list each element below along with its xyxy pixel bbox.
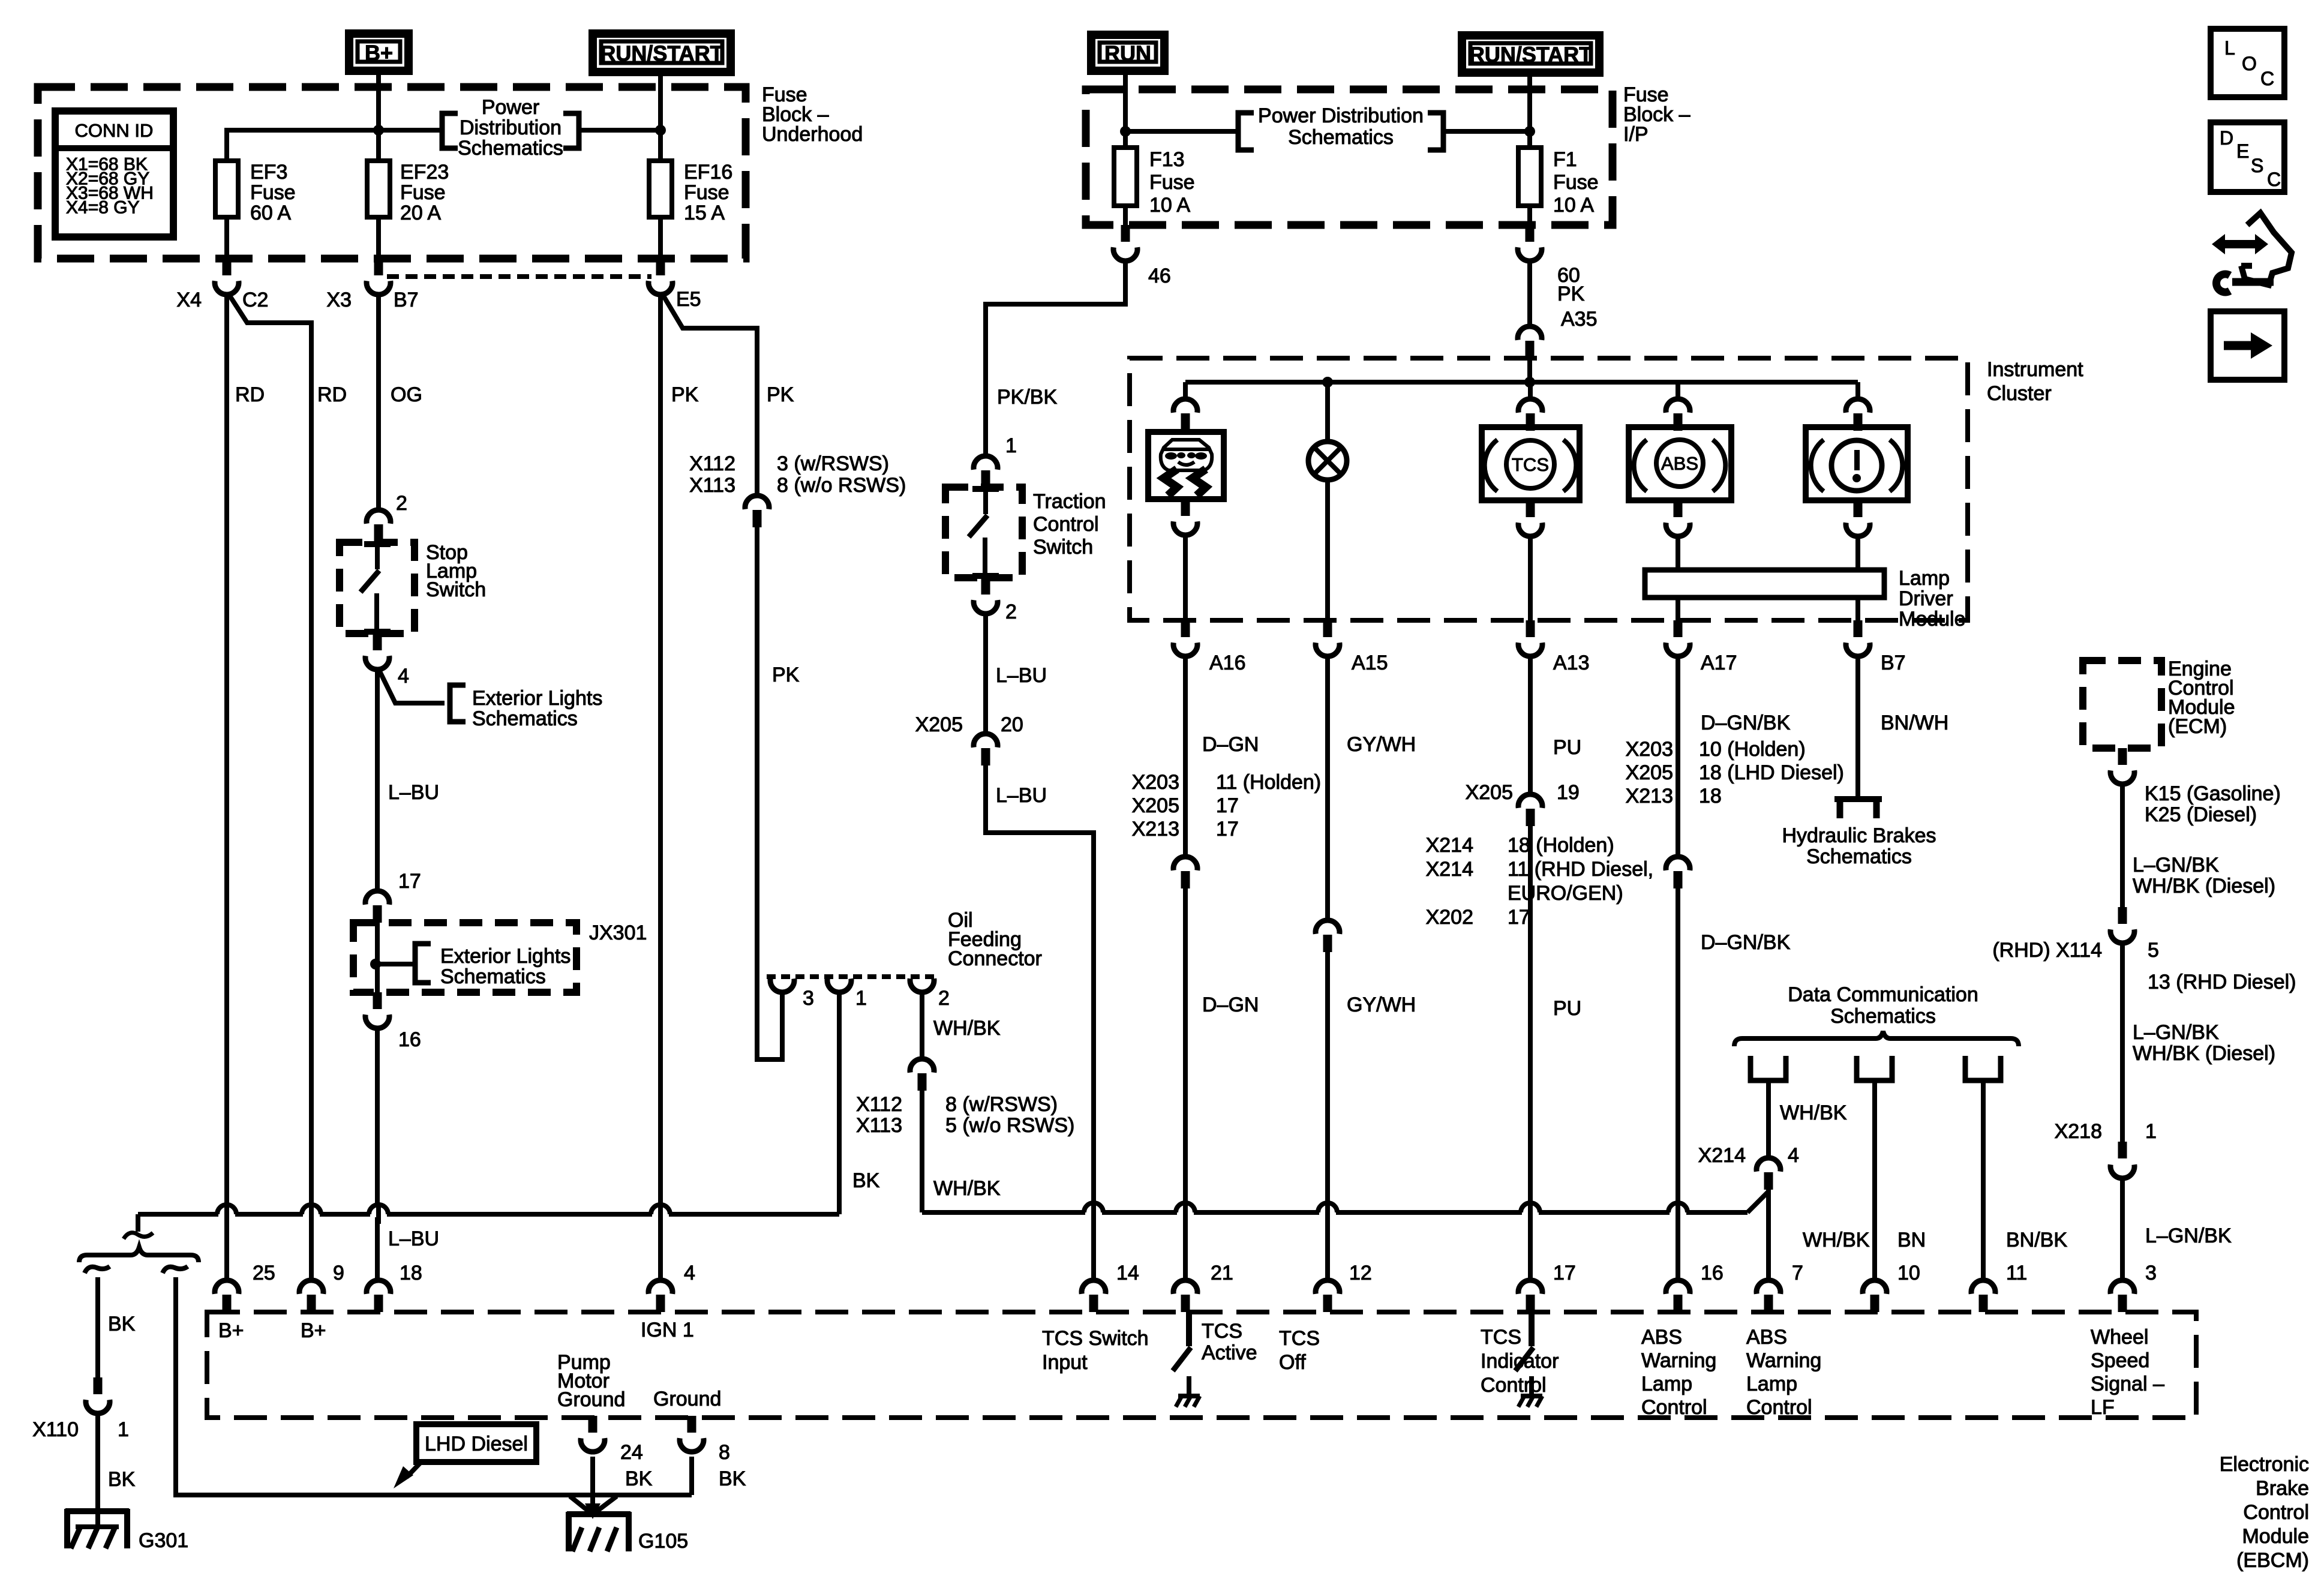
connector X218 pin 1 xyxy=(2118,1142,2127,1158)
wire BN to EBCM pin 10 xyxy=(1872,1080,1877,1279)
svg-text:Schematics: Schematics xyxy=(458,137,563,160)
wire BN/WH xyxy=(1855,655,1860,798)
svg-text:Switch: Switch xyxy=(426,578,486,601)
svg-text:X214: X214 xyxy=(1698,1144,1746,1167)
connector 4 below stop lamp switch xyxy=(373,634,382,650)
svg-text:60 A: 60 A xyxy=(250,202,291,224)
svg-text:RD: RD xyxy=(317,383,347,406)
svg-text:PK: PK xyxy=(1557,283,1585,305)
svg-text:WH/BK: WH/BK xyxy=(933,1017,1001,1040)
svg-text:Wheel: Wheel xyxy=(2091,1326,2148,1349)
svg-text:(RHD) X114: (RHD) X114 xyxy=(1992,939,2102,962)
wire B7 below lamp driver xyxy=(1855,598,1860,620)
svg-text:WH/BK (Diesel): WH/BK (Diesel) xyxy=(2133,875,2275,897)
svg-text:LHD Diesel: LHD Diesel xyxy=(425,1433,528,1455)
svg-text:Warning: Warning xyxy=(1641,1349,1716,1372)
fuse block I/P dashed box xyxy=(1086,89,1613,225)
svg-text:GY/WH: GY/WH xyxy=(1347,733,1416,756)
svg-text:Control: Control xyxy=(1746,1396,1812,1419)
connector 60 below F1 xyxy=(1526,225,1535,242)
svg-text:Control: Control xyxy=(1033,513,1099,536)
svg-text:BK: BK xyxy=(108,1468,136,1491)
ground G105 xyxy=(567,1511,630,1517)
junction on RUN wire xyxy=(1120,126,1131,137)
wire PU to TCS indicator control xyxy=(1528,826,1533,1279)
svg-text:X3: X3 xyxy=(326,289,352,311)
wire D-GN xyxy=(1183,655,1188,855)
svg-text:C: C xyxy=(2260,68,2274,89)
svg-text:X110: X110 xyxy=(32,1418,79,1441)
connector A13 xyxy=(1526,620,1535,637)
svg-text:TCS: TCS xyxy=(1481,1326,1521,1349)
connector 2 below traction control switch xyxy=(981,578,990,595)
wire L-GN/BK to EBCM pin 3 xyxy=(2120,1177,2125,1279)
bracket power distribution I/P (left) xyxy=(1238,113,1254,150)
branch to exterior lights schematics xyxy=(378,668,445,703)
bracket exterior lights schematics (JX301) xyxy=(415,944,431,983)
wire BK to G301 xyxy=(95,1412,100,1527)
svg-text:X205: X205 xyxy=(915,713,963,736)
TCS indicator box xyxy=(1482,427,1580,500)
svg-text:PK: PK xyxy=(772,664,800,686)
svg-text:D–GN/BK: D–GN/BK xyxy=(1701,931,1791,954)
connector pin 18 EBCM xyxy=(367,1280,391,1294)
svg-text:PU: PU xyxy=(1553,736,1581,759)
svg-text:RUN: RUN xyxy=(1104,41,1151,66)
wire to G105 collector xyxy=(176,1277,692,1495)
data comm stub WH/BK xyxy=(1750,1056,1786,1080)
wire lamp to A15 xyxy=(1325,480,1330,620)
wire B+ feed xyxy=(376,75,381,161)
svg-text:L–GN/BK: L–GN/BK xyxy=(2133,854,2219,876)
wire L-GN/BK to X218 xyxy=(2120,941,2125,1143)
svg-text:Schematics: Schematics xyxy=(1806,845,1912,868)
wire to TCS Off lamp xyxy=(1325,382,1330,442)
ground G301 xyxy=(65,1508,129,1514)
wire WH/BK to X214 xyxy=(1766,1080,1771,1157)
bus drop to brace xyxy=(136,1214,140,1232)
right BK wire hook xyxy=(163,1266,188,1273)
connector pin 16 EBCM xyxy=(1666,1280,1690,1294)
connector B7 (cluster) xyxy=(1854,620,1863,637)
svg-text:24: 24 xyxy=(620,1441,643,1464)
svg-text:Brake: Brake xyxy=(2256,1477,2309,1500)
junction node on RUN/START wire xyxy=(655,125,666,136)
wire RD from X4 (pin 25 B+) xyxy=(224,293,229,1279)
wire to A16 xyxy=(1183,533,1188,620)
svg-text:2: 2 xyxy=(1005,601,1017,623)
stop lamp switch xyxy=(364,541,391,547)
brake warning icon xyxy=(1831,440,1882,491)
brake warning indicator box xyxy=(1806,427,1908,500)
connector below TCS icon xyxy=(1526,500,1535,517)
svg-text:PK: PK xyxy=(767,383,794,406)
svg-text:BN/BK: BN/BK xyxy=(2006,1229,2067,1251)
svg-text:ABS: ABS xyxy=(1641,1326,1682,1349)
svg-text:10 A: 10 A xyxy=(1553,194,1594,217)
svg-text:Lamp: Lamp xyxy=(1746,1373,1797,1395)
svg-text:L: L xyxy=(2224,37,2235,59)
svg-text:46: 46 xyxy=(1148,265,1171,287)
svg-text:Warning: Warning xyxy=(1746,1349,1821,1372)
connector above brake warning icon xyxy=(1846,399,1870,413)
svg-text:1: 1 xyxy=(118,1418,129,1441)
svg-text:Switch: Switch xyxy=(1033,536,1093,559)
wire to ABS icon xyxy=(1676,382,1680,398)
connector 8 ground xyxy=(687,1416,696,1433)
svg-text:Fuse: Fuse xyxy=(1149,171,1195,194)
vehicle skid icon skid marks xyxy=(1164,469,1177,496)
svg-text:Electronic: Electronic xyxy=(2220,1453,2309,1476)
svg-text:WH/BK (Diesel): WH/BK (Diesel) xyxy=(2133,1042,2275,1065)
svg-text:X112: X112 xyxy=(856,1093,902,1116)
svg-text:A17: A17 xyxy=(1701,652,1737,674)
arrow icon xyxy=(2211,311,2284,380)
svg-text:I/P: I/P xyxy=(1623,123,1649,146)
svg-text:3: 3 xyxy=(2145,1262,2157,1284)
svg-text:D–GN: D–GN xyxy=(1202,993,1259,1016)
wire to skid icon xyxy=(1183,382,1188,398)
oil feeding connector dashed row xyxy=(767,974,936,979)
svg-text:Ground: Ground xyxy=(653,1388,721,1410)
svg-text:BK: BK xyxy=(108,1313,136,1335)
svg-text:A13: A13 xyxy=(1553,652,1590,674)
svg-text:16: 16 xyxy=(398,1028,421,1051)
bus hops xyxy=(218,1211,235,1217)
oil feeding cup pin 1 xyxy=(827,978,851,992)
data communication brace xyxy=(1734,1031,2019,1046)
connector A17 xyxy=(1674,620,1683,637)
fuse EF16 15A xyxy=(658,161,663,259)
connector pin 11 EBCM xyxy=(1971,1280,1995,1294)
svg-text:K15 (Gasoline): K15 (Gasoline) xyxy=(2145,782,2281,805)
connector pin 4 EBCM xyxy=(648,1280,672,1294)
connector X3 pin B7 xyxy=(374,259,383,275)
svg-text:RUN/START: RUN/START xyxy=(1469,43,1592,67)
wire X214 to EBCM pin 7 xyxy=(1766,1190,1771,1279)
svg-text:B+: B+ xyxy=(365,41,393,65)
svg-text:F1: F1 xyxy=(1553,148,1577,171)
power tag RUN xyxy=(1091,35,1164,71)
svg-text:8: 8 xyxy=(719,1441,730,1464)
bracket power distribution I/P (right) xyxy=(1428,113,1443,150)
svg-text:4: 4 xyxy=(1788,1144,1799,1167)
svg-text:TCS: TCS xyxy=(1202,1320,1242,1343)
connector X114 xyxy=(2118,907,2127,924)
fuse EF23 20A xyxy=(376,161,381,259)
svg-text:1: 1 xyxy=(2145,1120,2157,1143)
svg-text:3 (w/RSWS): 3 (w/RSWS) xyxy=(777,452,889,475)
svg-text:Speed: Speed xyxy=(2091,1349,2149,1372)
svg-text:19: 19 xyxy=(1557,781,1580,804)
svg-text:X214: X214 xyxy=(1426,858,1473,881)
svg-text:L–GN/BK: L–GN/BK xyxy=(2133,1021,2219,1044)
svg-text:X213: X213 xyxy=(1626,785,1673,807)
svg-text:25: 25 xyxy=(253,1262,275,1284)
svg-text:Data Communication: Data Communication xyxy=(1788,983,1978,1006)
svg-text:D–GN/BK: D–GN/BK xyxy=(1701,712,1791,734)
svg-text:ABS: ABS xyxy=(1746,1326,1787,1349)
wire GY/WH to TCS Off xyxy=(1325,952,1330,1279)
svg-text:Cluster: Cluster xyxy=(1987,382,2052,405)
ground bus (left) xyxy=(138,1212,839,1217)
svg-text:20 A: 20 A xyxy=(400,202,441,224)
svg-text:C: C xyxy=(2267,169,2281,190)
svg-text:Distribution: Distribution xyxy=(460,116,562,139)
svg-text:14: 14 xyxy=(1116,1262,1139,1284)
svg-text:B+: B+ xyxy=(218,1319,244,1342)
traction control switch xyxy=(972,486,999,492)
svg-text:RD: RD xyxy=(235,383,265,406)
svg-text:EURO/GEN): EURO/GEN) xyxy=(1508,882,1623,905)
connector X110 pin 1 xyxy=(94,1377,103,1394)
diagonal from ground bus to X214 xyxy=(1747,1191,1768,1212)
svg-text:Off: Off xyxy=(1279,1351,1306,1374)
svg-text:X112: X112 xyxy=(689,452,735,475)
connector X4 pin C2 xyxy=(223,259,232,275)
svg-text:E: E xyxy=(2236,140,2249,162)
power tag RUN/START (I/P) xyxy=(1462,35,1599,73)
LHD Diesel arrow xyxy=(407,1462,421,1477)
connector below ABS icon xyxy=(1674,500,1683,517)
svg-text:17: 17 xyxy=(398,870,421,893)
fuse F1 10A xyxy=(1527,148,1532,225)
svg-text:BN: BN xyxy=(1897,1229,1926,1251)
break squiggle xyxy=(124,1233,153,1239)
oil feeding cup pin 3 xyxy=(770,978,794,992)
svg-text:BN/WH: BN/WH xyxy=(1881,712,1948,734)
wire from connector 8 to collector xyxy=(689,1457,694,1495)
svg-text:K25 (Diesel): K25 (Diesel) xyxy=(2145,803,2257,826)
svg-text:17: 17 xyxy=(1508,906,1530,929)
G105 fork xyxy=(570,1496,591,1513)
svg-text:Underhood: Underhood xyxy=(762,123,863,146)
svg-text:Hydraulic Brakes: Hydraulic Brakes xyxy=(1782,824,1936,847)
wire WH/BK pin2 xyxy=(920,990,924,1058)
EBCM dashed box xyxy=(207,1312,2196,1418)
svg-text:8 (w/o RSWS): 8 (w/o RSWS) xyxy=(777,474,906,497)
connector pin 14 EBCM xyxy=(1082,1280,1106,1294)
svg-text:BK: BK xyxy=(719,1467,746,1490)
svg-text:D–GN: D–GN xyxy=(1202,733,1259,756)
wire PU xyxy=(1528,655,1533,793)
connector 2 stop lamp switch xyxy=(367,510,391,524)
svg-text:13 (RHD Diesel): 13 (RHD Diesel) xyxy=(2148,971,2296,993)
svg-text:20: 20 xyxy=(1001,713,1023,736)
svg-text:Connector: Connector xyxy=(948,947,1042,970)
connector pin 17 EBCM xyxy=(1518,1280,1542,1294)
svg-text:Exterior Lights: Exterior Lights xyxy=(440,945,571,968)
ground bus (right) xyxy=(922,1210,1747,1215)
svg-text:15 A: 15 A xyxy=(684,202,725,224)
svg-text:WH/BK: WH/BK xyxy=(1803,1229,1870,1251)
branch from E5 to X112/X113 xyxy=(662,294,757,494)
wire RUN/START I/P feed xyxy=(1527,77,1532,148)
lamp driver module box xyxy=(1645,570,1884,598)
brace to BK wires xyxy=(79,1247,199,1262)
svg-text:L–BU: L–BU xyxy=(996,784,1047,807)
connector 46 below F13 xyxy=(1121,225,1130,242)
svg-text:4: 4 xyxy=(684,1262,695,1284)
connector 16 below JX301 xyxy=(373,992,382,1009)
wire L-GN/BK from ECM xyxy=(2120,782,2125,907)
connector pin 25 EBCM xyxy=(215,1280,239,1294)
svg-text:A16: A16 xyxy=(1209,652,1246,674)
wire GY/WH xyxy=(1325,655,1330,919)
connector 24 pump motor ground xyxy=(588,1416,597,1433)
svg-text:2: 2 xyxy=(938,987,950,1010)
wire L-BU to TCS switch input xyxy=(986,766,1094,1279)
wire bracket to RUN/START xyxy=(579,128,660,133)
svg-text:WH/BK: WH/BK xyxy=(933,1177,1001,1200)
wire RUN feed xyxy=(1123,75,1128,148)
svg-text:X218: X218 xyxy=(2055,1120,2102,1143)
svg-text:PK/BK: PK/BK xyxy=(997,386,1057,409)
svg-text:JX301: JX301 xyxy=(589,921,647,944)
svg-text:X205: X205 xyxy=(1132,794,1179,817)
svg-text:Module: Module xyxy=(1899,608,1966,631)
fuse block underhood dashed box xyxy=(38,87,746,259)
svg-text:Exterior Lights: Exterior Lights xyxy=(472,687,602,710)
svg-text:E5: E5 xyxy=(676,288,701,311)
connector pin 3 EBCM xyxy=(2110,1280,2134,1294)
svg-text:X113: X113 xyxy=(689,474,735,497)
svg-text:21: 21 xyxy=(1211,1262,1233,1284)
wire RD branch from C2 (pin 9 B+) xyxy=(229,294,311,1279)
LOC icon xyxy=(2211,29,2284,97)
svg-text:18: 18 xyxy=(1699,785,1722,807)
connector above TCS icon xyxy=(1518,399,1542,413)
wire L-BU xyxy=(983,612,988,733)
svg-text:G105: G105 xyxy=(638,1530,688,1553)
connector above ABS icon xyxy=(1666,399,1690,413)
wire PK to instrument cluster xyxy=(1527,259,1532,325)
svg-text:L–BU: L–BU xyxy=(996,664,1047,687)
left BK wire hook xyxy=(85,1266,110,1273)
data comm stub BN xyxy=(1857,1056,1892,1080)
svg-text:S: S xyxy=(2251,155,2263,176)
svg-text:5: 5 xyxy=(2148,939,2159,962)
svg-text:EF16: EF16 xyxy=(684,161,732,184)
wire A17 below lamp driver xyxy=(1676,598,1680,620)
connector above skid icon xyxy=(1173,399,1197,413)
svg-text:Module: Module xyxy=(2242,1525,2309,1548)
svg-text:Fuse: Fuse xyxy=(400,181,446,204)
connector E5 xyxy=(656,259,665,275)
lamp symbol xyxy=(1308,442,1347,480)
svg-text:TCS Switch: TCS Switch xyxy=(1042,1327,1149,1350)
bracket to Power Distribution Schematics (left) xyxy=(442,113,458,148)
wire L-BU JX301 to EBCM pin 18 xyxy=(375,1026,380,1279)
wire to A13 xyxy=(1528,535,1533,620)
svg-text:X113: X113 xyxy=(856,1114,902,1137)
hydraulic brakes destination bracket xyxy=(1834,796,1882,802)
wire D-GN/BK xyxy=(1676,655,1680,855)
data comm stub BN/BK xyxy=(1965,1056,2001,1080)
fuse EF3 60A xyxy=(224,161,229,259)
svg-text:Power Distribution: Power Distribution xyxy=(1258,104,1424,127)
svg-text:BK: BK xyxy=(852,1169,880,1192)
svg-text:WH/BK: WH/BK xyxy=(1780,1101,1847,1124)
svg-text:10 A: 10 A xyxy=(1149,194,1190,217)
connector below skid icon xyxy=(1181,499,1190,516)
svg-text:EF23: EF23 xyxy=(400,161,449,184)
svg-text:X213: X213 xyxy=(1132,818,1179,840)
svg-text:4: 4 xyxy=(398,665,409,688)
svg-text:TCS: TCS xyxy=(1279,1327,1320,1350)
svg-text:ABS: ABS xyxy=(1661,453,1698,474)
svg-text:RUN/START: RUN/START xyxy=(600,41,723,66)
svg-text:Control: Control xyxy=(1641,1396,1707,1419)
svg-text:Schematics: Schematics xyxy=(1830,1005,1936,1028)
svg-text:17: 17 xyxy=(1553,1262,1576,1284)
wire to brake warning icon xyxy=(1855,382,1860,398)
connector pin 21 EBCM xyxy=(1173,1280,1197,1294)
oil feeding cup pin 2 xyxy=(910,978,934,992)
svg-text:IGN 1: IGN 1 xyxy=(641,1319,694,1341)
svg-text:Lamp: Lamp xyxy=(1899,567,1950,590)
svg-text:L–BU: L–BU xyxy=(388,1227,439,1250)
ABS indicator box xyxy=(1629,427,1731,500)
wire OG / stop lamp feed xyxy=(376,293,381,509)
TCS indicator icon xyxy=(1506,440,1554,488)
DESC icon xyxy=(2211,122,2284,192)
svg-text:1: 1 xyxy=(1005,434,1017,457)
wire BK to X110 xyxy=(95,1277,100,1377)
LHD Diesel box xyxy=(416,1424,536,1462)
stop lamp switch dashed box xyxy=(340,542,415,634)
svg-text:11: 11 xyxy=(2006,1262,2027,1284)
svg-text:Driver: Driver xyxy=(1899,587,1953,610)
svg-text:5 (w/o RSWS): 5 (w/o RSWS) xyxy=(945,1114,1074,1137)
svg-text:10 (Holden): 10 (Holden) xyxy=(1699,738,1806,761)
svg-text:GY/WH: GY/WH xyxy=(1347,993,1416,1016)
engine control module dashed box xyxy=(2083,661,2161,748)
svg-text:Schematics: Schematics xyxy=(440,965,546,988)
svg-text:Fuse: Fuse xyxy=(684,181,729,204)
svg-text:Traction: Traction xyxy=(1033,490,1106,513)
svg-text:12: 12 xyxy=(1349,1262,1372,1284)
svg-text:X214: X214 xyxy=(1426,834,1473,857)
wire D-GN/BK to ABS warning lamp control xyxy=(1676,888,1680,1279)
wire BN/BK to EBCM pin 11 xyxy=(1981,1080,1986,1279)
cluster bus xyxy=(1185,380,1858,385)
junction in JX301 xyxy=(370,959,381,969)
bracket from Power Distribution Schematics (right) xyxy=(563,113,579,148)
connector pin 7 EBCM xyxy=(1756,1280,1780,1294)
wire brake warning to lamp driver module xyxy=(1855,535,1860,570)
svg-text:L–BU: L–BU xyxy=(388,781,439,804)
svg-text:16: 16 xyxy=(1701,1262,1724,1284)
svg-text:Fuse: Fuse xyxy=(1553,171,1599,194)
power tag RUN/START (underhood) xyxy=(593,34,731,72)
svg-text:PK: PK xyxy=(671,383,699,406)
JX301 dashed box xyxy=(353,923,577,992)
svg-text:TCS: TCS xyxy=(1512,454,1549,475)
wire D-GN to TCS active xyxy=(1183,888,1188,1279)
svg-text:X203: X203 xyxy=(1626,738,1673,761)
svg-text:Input: Input xyxy=(1042,1351,1088,1374)
dotted connector line B7-E5 xyxy=(387,274,651,279)
svg-text:Schematics: Schematics xyxy=(1288,126,1394,149)
wire EF3 branch xyxy=(227,130,442,161)
svg-text:18: 18 xyxy=(400,1262,422,1284)
svg-text:Instrument: Instrument xyxy=(1987,358,2083,381)
svg-text:B+: B+ xyxy=(301,1319,326,1342)
svg-text:7: 7 xyxy=(1792,1262,1803,1284)
connector below brake warning icon xyxy=(1854,500,1863,517)
svg-text:8 (w/RSWS): 8 (w/RSWS) xyxy=(945,1093,1058,1116)
